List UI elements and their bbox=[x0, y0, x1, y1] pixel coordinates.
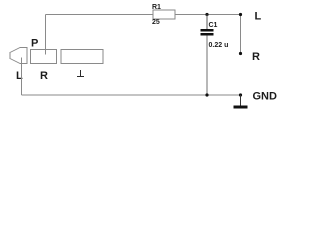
junction: node at C1 top bbox=[205, 13, 208, 16]
pin symbol sleeve ground mark bbox=[77, 70, 84, 77]
node L pin dot bbox=[239, 13, 242, 16]
wire: C1 bottom lead down to bottom rail bbox=[206, 36, 208, 95]
wire: GND stub bbox=[240, 95, 242, 106]
resistor R1 bbox=[153, 10, 175, 19]
jack J1 sleeve box bbox=[61, 50, 103, 64]
jack J1 contact P box bbox=[31, 50, 57, 64]
svg-text:R: R bbox=[40, 70, 48, 82]
svg-text:25: 25 bbox=[152, 19, 160, 26]
wire: vertical link from node L to node R bbox=[240, 15, 242, 54]
node GND pin dot bbox=[239, 93, 242, 96]
svg-text:0.22 u: 0.22 u bbox=[209, 42, 229, 49]
junction: node at C1 bottom bbox=[205, 93, 208, 96]
wire: top rail from P corner to R1 left bbox=[46, 14, 154, 16]
jack J1 tip bbox=[10, 48, 27, 64]
svg-text:P: P bbox=[31, 38, 38, 50]
wire: P riser from jack pin P up to top rail bbox=[45, 15, 47, 55]
wire: top rail from R1 right to node L bbox=[175, 14, 241, 16]
svg-text:R1: R1 bbox=[152, 4, 161, 11]
wire: jack tip riser down to bottom rail bbox=[21, 58, 23, 96]
wire: bottom rail bbox=[22, 94, 241, 96]
wire: C1 top lead bbox=[206, 15, 208, 30]
svg-text:C1: C1 bbox=[209, 22, 218, 29]
svg-text:L: L bbox=[255, 11, 262, 23]
capacitor C1 bbox=[201, 29, 214, 36]
node R pin dot bbox=[239, 52, 242, 55]
svg-text:GND: GND bbox=[253, 91, 278, 103]
ground symbol bar bbox=[234, 106, 248, 109]
svg-text:R: R bbox=[252, 51, 260, 63]
